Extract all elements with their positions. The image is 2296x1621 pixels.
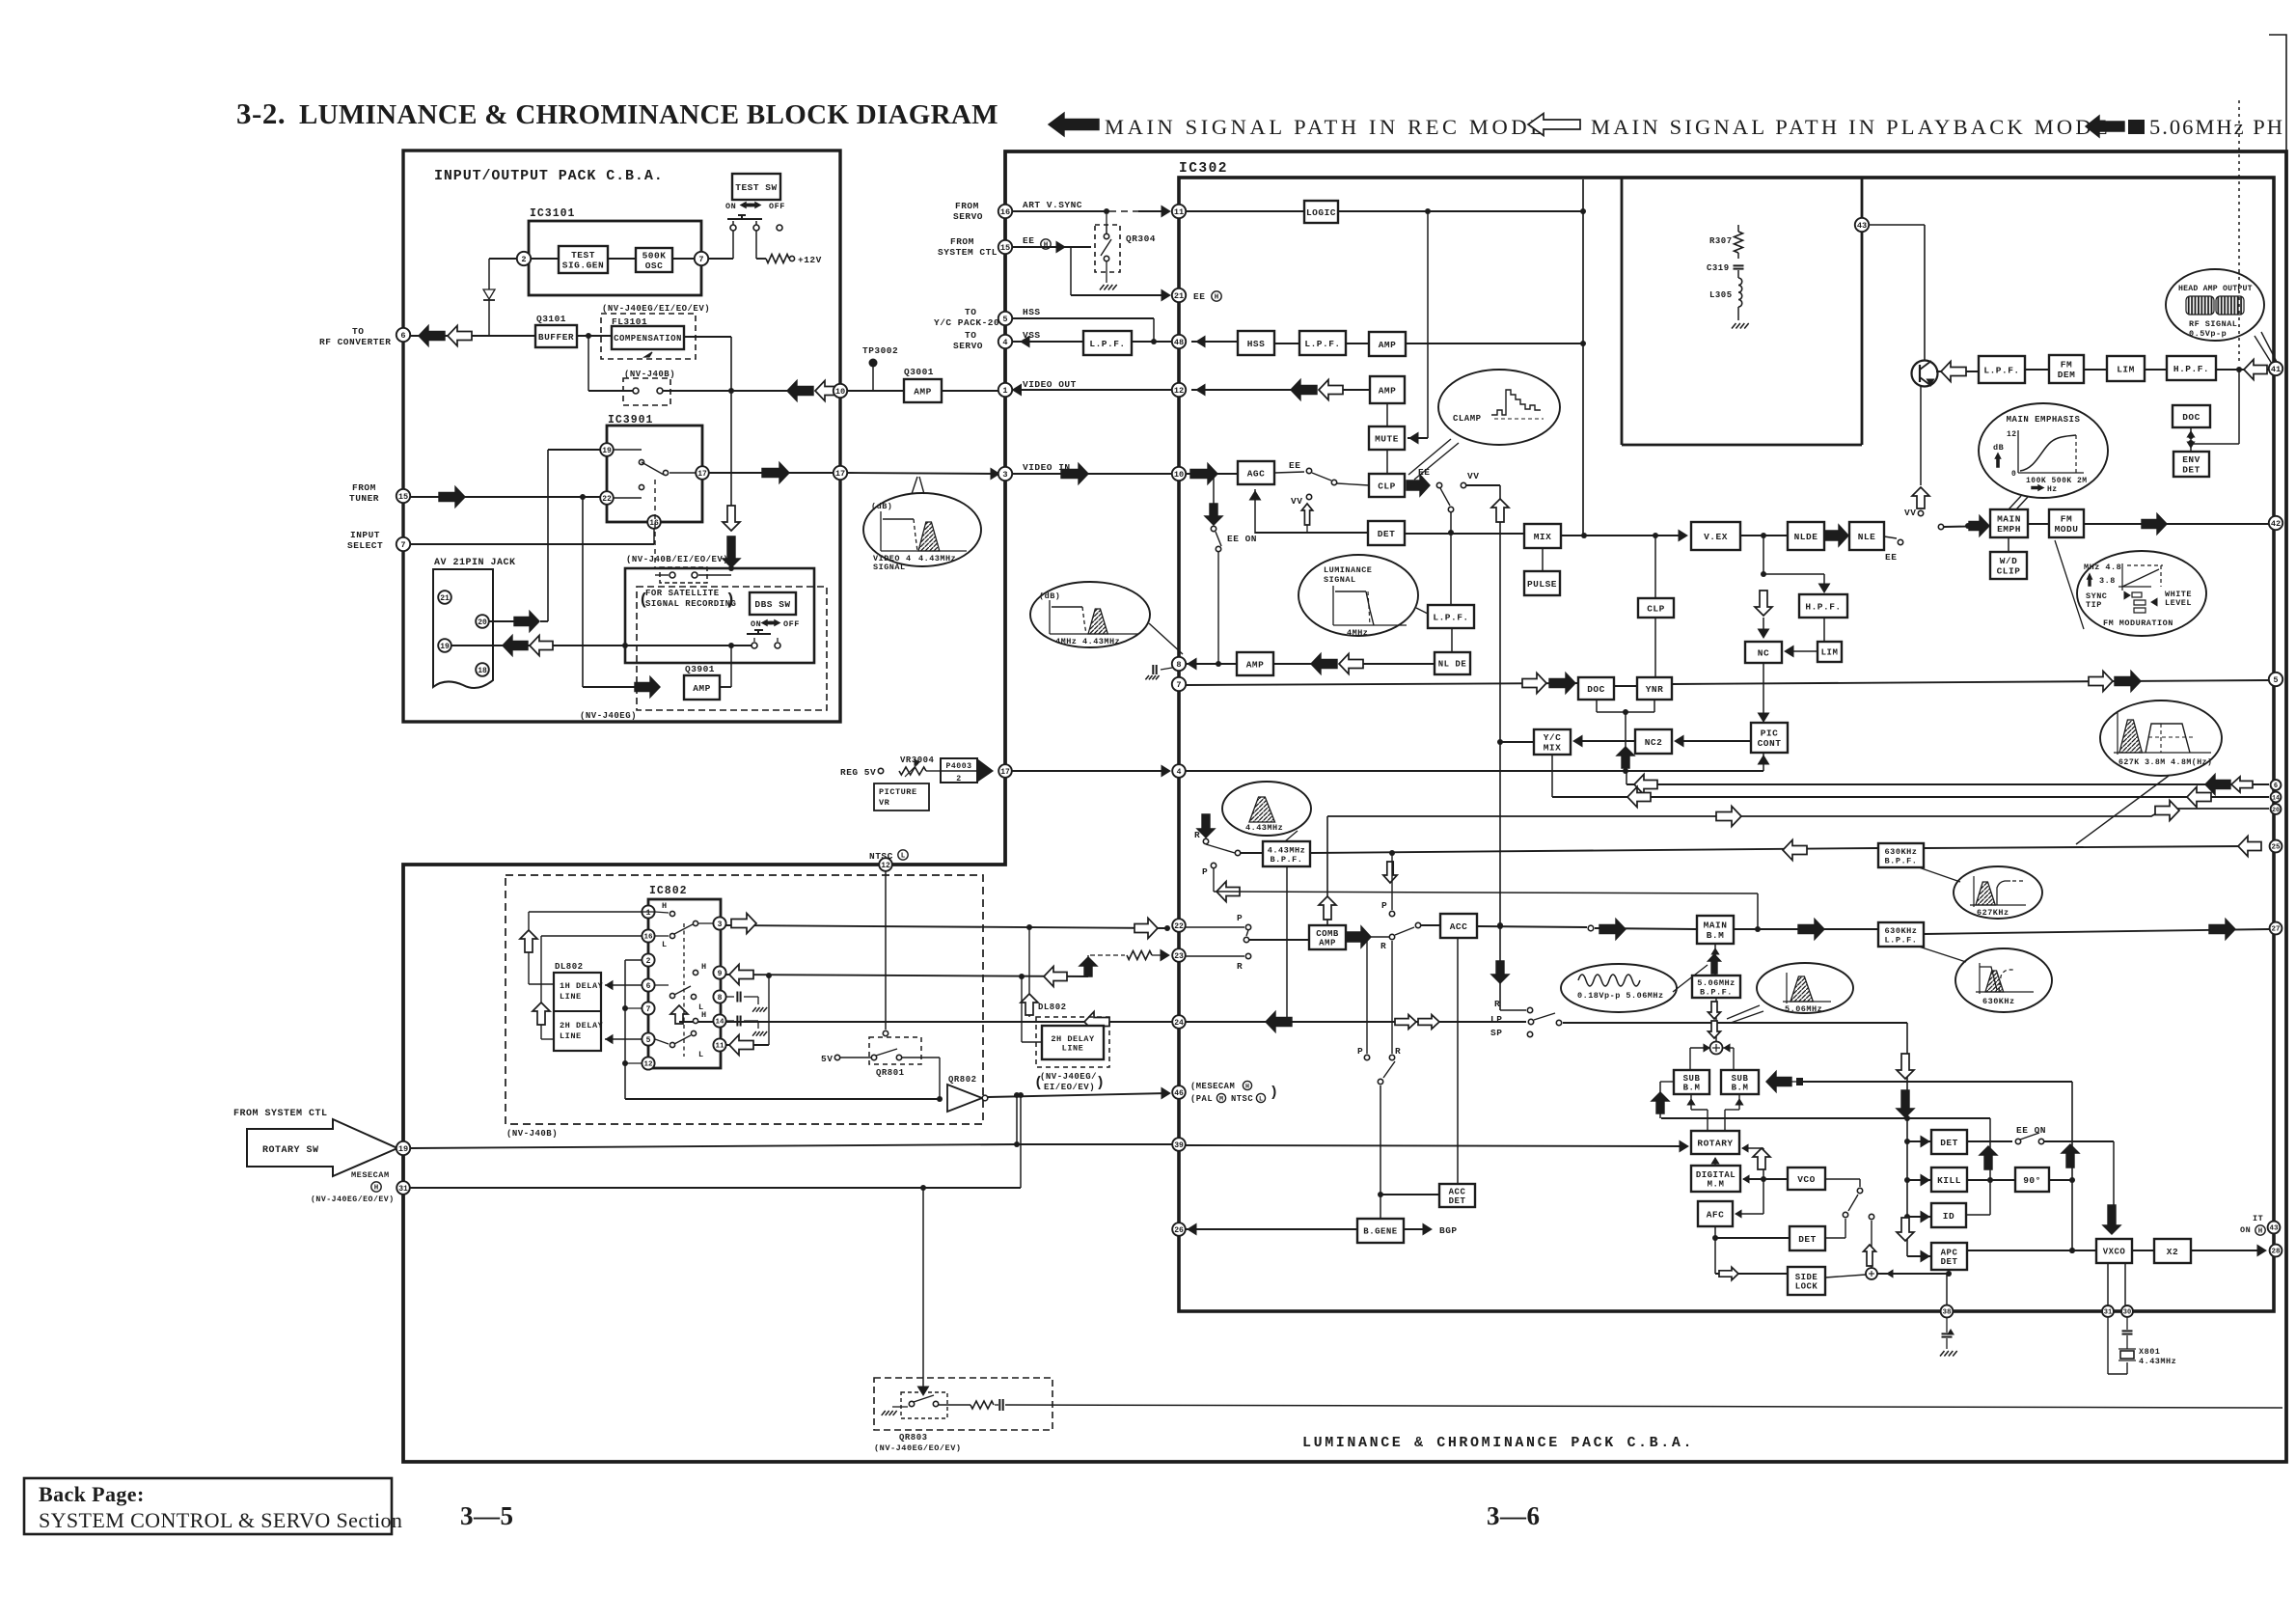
svg-text:23: 23 [1174,952,1184,961]
svg-text:VIDEO OUT: VIDEO OUT [1023,379,1077,390]
svg-text:H: H [2258,1228,2263,1236]
svg-text:AFC: AFC [1707,1209,1725,1220]
svg-text:H: H [701,1010,707,1020]
svg-text:MODU: MODU [2055,524,2079,535]
svg-text:BGP: BGP [1439,1225,1458,1236]
svg-text:(NV-J40B): (NV-J40B) [506,1129,558,1139]
svg-text:CLIP: CLIP [1997,566,2021,577]
svg-text:7: 7 [400,540,405,550]
svg-text:IC302: IC302 [1179,161,1228,177]
svg-text:30: 30 [2123,1309,2131,1317]
svg-text:M: M [1219,1095,1223,1102]
svg-text:5: 5 [2273,675,2278,685]
svg-text:43: 43 [2269,1225,2279,1233]
svg-text:3: 3 [1002,470,1007,480]
svg-text:TO: TO [352,326,364,337]
svg-text:4.43MHz: 4.43MHz [918,554,956,563]
svg-text:L.P.F.: L.P.F. [1885,935,1918,945]
svg-text:3.8: 3.8 [2099,576,2116,586]
svg-text:7: 7 [1176,680,1181,690]
svg-text:14: 14 [715,1019,724,1027]
svg-text:(: ( [1034,1075,1044,1091]
svg-text:dB: dB [1993,443,2004,453]
svg-text:0: 0 [2011,470,2016,479]
svg-text:NLDE: NLDE [1794,532,1818,542]
svg-text:FM MODURATION: FM MODURATION [2103,618,2173,628]
svg-text:L: L [698,1050,704,1059]
svg-text:INPUT: INPUT [350,530,380,540]
svg-text:AMP: AMP [1319,939,1336,948]
svg-text:LUMINANCE: LUMINANCE [1324,565,1372,575]
svg-text:AMP: AMP [1246,659,1265,670]
svg-text:28: 28 [2271,1249,2281,1256]
svg-text:MIX: MIX [1544,743,1562,754]
svg-text:21: 21 [440,594,450,603]
svg-text:P: P [1357,1046,1363,1057]
svg-text:(MESECAM: (MESECAM [1190,1082,1235,1091]
svg-text:FROM: FROM [950,236,974,247]
svg-text:ART V.SYNC: ART V.SYNC [1023,200,1082,210]
svg-text:TO: TO [965,307,976,317]
svg-text:MHz 4.8: MHz 4.8 [2084,563,2121,572]
svg-text:EI/EO/EV): EI/EO/EV) [1044,1083,1095,1092]
svg-text:ON: ON [2240,1225,2251,1235]
svg-text:(: ( [639,591,649,610]
svg-text:15: 15 [1000,243,1010,253]
svg-text:90°: 90° [2023,1175,2041,1186]
svg-text:SYSTEM CONTROL & SERVO Section: SYSTEM CONTROL & SERVO Section [39,1508,402,1532]
svg-text:VXCO: VXCO [2103,1248,2126,1257]
svg-text:P: P [1237,913,1243,923]
svg-text:B.GENE: B.GENE [1363,1227,1398,1237]
svg-text:SELECT: SELECT [347,540,383,551]
svg-text:L: L [662,940,668,949]
svg-text:2: 2 [521,255,526,264]
svg-text:11: 11 [1174,207,1184,217]
svg-text:NC2: NC2 [1645,737,1663,748]
svg-text:ACC: ACC [1450,921,1468,932]
svg-text:FROM SYSTEM CTL: FROM SYSTEM CTL [233,1109,328,1119]
svg-text:EMPH: EMPH [1997,524,2021,535]
svg-text:SERVO: SERVO [953,211,983,222]
svg-text:R307: R307 [1709,236,1733,246]
svg-text:Y/C PACK-20: Y/C PACK-20 [934,317,999,328]
svg-text:38: 38 [1942,1309,1952,1317]
svg-text:LINE: LINE [1062,1043,1084,1053]
svg-text:YNR: YNR [1646,684,1664,695]
svg-text:(NV-J40EG/: (NV-J40EG/ [1040,1072,1097,1082]
svg-text:FROM: FROM [352,482,376,493]
svg-text:(PAL: (PAL [1190,1094,1213,1104]
svg-text:ACC: ACC [1449,1187,1466,1196]
svg-text:H: H [374,1185,379,1193]
svg-text:4: 4 [1177,768,1182,777]
svg-text:DEM: DEM [2058,370,2076,380]
svg-text:LOCK: LOCK [1795,1282,1818,1292]
svg-text:EE: EE [1885,552,1897,563]
svg-text:H: H [1215,294,1219,302]
svg-text:L.P.F.: L.P.F. [1089,339,1125,349]
svg-text:(NV-J40EG): (NV-J40EG) [580,711,637,721]
svg-text:PULSE: PULSE [1527,579,1557,590]
svg-text:6: 6 [646,982,651,991]
svg-text:CLP: CLP [1647,603,1665,614]
svg-text:9: 9 [718,970,723,978]
svg-text:BUFFER: BUFFER [538,332,574,343]
svg-text:12: 12 [2007,430,2017,439]
svg-text:): ) [725,591,736,610]
svg-text:SUB: SUB [1683,1074,1701,1084]
svg-text:DET: DET [1940,1138,1958,1148]
svg-text:CONT: CONT [1758,738,1782,749]
svg-text:Q3901: Q3901 [685,664,715,674]
svg-text:MAIN EMPHASIS: MAIN EMPHASIS [2007,415,2081,425]
svg-text:DOC: DOC [1587,684,1605,695]
svg-text:0.5Vp-p: 0.5Vp-p [2189,329,2227,339]
svg-text:4.43MHz: 4.43MHz [2139,1357,2176,1366]
svg-text:31: 31 [2104,1309,2112,1317]
svg-text:Hz: Hz [2047,485,2058,494]
svg-text:NTSC: NTSC [1231,1094,1253,1104]
svg-text:Y/C: Y/C [1544,732,1562,743]
svg-text:627K 3.8M 4.8M(Hz): 627K 3.8M 4.8M(Hz) [2118,757,2212,767]
svg-text:Back Page:: Back Page: [39,1482,145,1506]
svg-text:P4003: P4003 [945,762,971,771]
svg-text:DET: DET [1798,1234,1817,1245]
svg-text:B.P.F.: B.P.F. [1885,856,1918,865]
svg-text:H: H [701,962,707,972]
svg-text:3—6: 3—6 [1487,1501,1541,1530]
svg-text:25: 25 [2271,844,2281,852]
svg-text:500K: 500K [642,251,667,261]
svg-text:(NV-J40B): (NV-J40B) [624,370,675,379]
svg-text:(dB): (dB) [1039,591,1060,601]
svg-text:39: 39 [1174,1141,1184,1150]
svg-text:B.M: B.M [1707,930,1725,941]
svg-text:22: 22 [1174,922,1184,931]
svg-text:APC: APC [1941,1248,1958,1257]
svg-text:VR: VR [879,798,890,808]
svg-text:LUMINANCE & CHROMINANCE PACK C: LUMINANCE & CHROMINANCE PACK C.B.A. [1302,1435,1694,1451]
svg-text:(NV-J40B/EI/EO/EV): (NV-J40B/EI/EO/EV) [626,555,728,564]
svg-text:627KHz: 627KHz [1977,908,2009,918]
svg-text:RF SIGNAL: RF SIGNAL [2189,319,2237,329]
svg-text:(NV-J40EG/EI/EO/EV): (NV-J40EG/EI/EO/EV) [602,304,710,314]
svg-text:ROTARY: ROTARY [1697,1138,1733,1148]
svg-text:R: R [1380,941,1386,951]
svg-text:TIP: TIP [2086,600,2102,610]
svg-text:FM: FM [2061,514,2072,525]
svg-text:NC: NC [1758,647,1769,658]
svg-text:QR802: QR802 [948,1075,977,1085]
svg-text:2H DELAY: 2H DELAY [560,1021,604,1030]
svg-text:TEST SW: TEST SW [735,182,777,193]
svg-text:B.P.F.: B.P.F. [1271,855,1303,865]
svg-text:VCO: VCO [1797,1174,1816,1185]
svg-text:1H DELAY: 1H DELAY [560,981,604,991]
svg-text:LEVEL: LEVEL [2165,598,2192,608]
svg-text:ON: ON [725,202,736,211]
svg-text:18: 18 [478,667,487,675]
svg-text:M.M: M.M [1708,1180,1725,1190]
svg-text:FROM: FROM [955,201,979,211]
svg-text:): ) [1270,1085,1279,1101]
svg-text:14: 14 [2272,794,2280,801]
svg-text:REG 5V: REG 5V [840,767,876,778]
svg-text:20: 20 [478,618,487,627]
svg-text:EE: EE [1289,460,1300,471]
svg-text:FOR SATELLITE: FOR SATELLITE [645,589,720,598]
svg-text:B.M: B.M [1732,1084,1749,1093]
svg-text:24: 24 [1174,1019,1184,1028]
svg-text:12: 12 [1174,386,1184,396]
svg-text:8: 8 [718,994,723,1003]
svg-text:AMP: AMP [1379,340,1397,350]
svg-text:DL802: DL802 [555,962,584,972]
svg-text:PIC: PIC [1761,728,1779,739]
svg-text:22: 22 [602,495,612,504]
svg-text:H.P.F.: H.P.F. [2173,364,2209,374]
svg-text:VV: VV [1291,496,1302,507]
svg-text:H.P.F.: H.P.F. [1805,601,1841,612]
svg-text:AGC: AGC [1247,468,1266,479]
svg-text:L.P.F.: L.P.F. [1433,612,1468,622]
svg-text:10: 10 [1174,470,1184,480]
svg-text:SIG.GEN: SIG.GEN [562,261,604,271]
svg-text:TEST: TEST [571,250,595,261]
svg-text:L: L [1259,1095,1263,1102]
svg-text:SIGNAL RECORDING: SIGNAL RECORDING [645,599,736,609]
svg-text:OFF: OFF [769,202,785,211]
svg-text:P: P [1381,900,1387,911]
svg-text:15: 15 [398,492,408,502]
svg-text:27: 27 [2271,926,2280,934]
svg-text:LOGIC: LOGIC [1306,207,1336,218]
svg-text:EE ON: EE ON [2016,1125,2046,1136]
svg-text:H: H [662,901,668,911]
svg-text:LUMINANCE & CHROMINANCE BLOCK: LUMINANCE & CHROMINANCE BLOCK DIAGRAM [299,99,998,130]
svg-text:26: 26 [1174,1226,1184,1235]
svg-text:17: 17 [835,469,845,479]
svg-text:PICTURE: PICTURE [879,787,917,797]
svg-text:COMPENSATION: COMPENSATION [614,334,682,343]
svg-text:L305: L305 [1709,290,1733,300]
svg-text:DET: DET [1941,1257,1958,1267]
svg-text:V.EX: V.EX [1704,532,1728,542]
svg-text:MAIN: MAIN [1704,920,1728,931]
svg-text:5: 5 [1002,315,1007,324]
svg-text:COMB: COMB [1316,929,1339,939]
svg-text:TP3002: TP3002 [862,345,898,356]
svg-text:L.P.F.: L.P.F. [1983,365,2019,375]
svg-text:DET: DET [1378,529,1396,539]
svg-text:LIM: LIM [1821,648,1839,658]
svg-text:QR304: QR304 [1126,234,1156,244]
svg-text:3-2.: 3-2. [236,96,286,130]
svg-text:16: 16 [1000,207,1010,217]
svg-text:21: 21 [1174,291,1184,301]
svg-text:5V: 5V [821,1054,833,1064]
svg-text:EE: EE [1023,235,1034,246]
svg-text:1: 1 [646,909,651,918]
svg-text:10: 10 [835,387,845,397]
svg-text:P: P [1202,866,1208,877]
svg-text:5: 5 [646,1036,651,1045]
svg-text:TO: TO [965,330,976,341]
svg-text:6: 6 [400,331,405,341]
svg-text:DL802: DL802 [1038,1003,1067,1012]
svg-text:CLP: CLP [1378,481,1396,491]
svg-text:H: H [1245,1083,1249,1089]
svg-text:MAIN SIGNAL PATH IN PLAYBACK M: MAIN SIGNAL PATH IN PLAYBACK MODE [1591,115,2111,139]
svg-text:MIX: MIX [1534,532,1552,542]
svg-text:100K 500K 2M: 100K 500K 2M [2026,477,2088,485]
svg-text:ON: ON [751,619,761,629]
svg-text:16: 16 [649,519,659,528]
svg-text:43: 43 [1857,221,1867,231]
svg-text:EE: EE [1193,291,1205,302]
svg-text:SIDE: SIDE [1795,1273,1818,1282]
svg-text:VV: VV [1904,508,1916,518]
svg-text:Q3101: Q3101 [536,314,566,324]
svg-text:19: 19 [440,643,450,651]
svg-text:46: 46 [1174,1089,1184,1098]
svg-text:C319: C319 [1707,263,1730,273]
svg-text:SERVO: SERVO [953,341,983,351]
svg-text:B.M: B.M [1683,1084,1701,1093]
svg-text:LINE: LINE [560,992,582,1002]
svg-text:0.18Vp-p 5.06MHz: 0.18Vp-p 5.06MHz [1577,991,1664,1001]
svg-text:4: 4 [1002,338,1007,347]
svg-text:LP: LP [1490,1014,1502,1025]
svg-text:16: 16 [643,934,653,942]
svg-text:5.06MHz PH: 5.06MHz PH [2149,115,2284,139]
svg-text:41: 41 [2271,365,2281,374]
svg-text:4: 4 [906,554,912,563]
svg-text:630KHz: 630KHz [1982,997,2015,1006]
svg-text:OSC: OSC [645,261,664,271]
svg-text:12: 12 [643,1061,653,1069]
svg-text:3: 3 [718,920,723,929]
svg-text:KILL: KILL [1937,1175,1961,1186]
svg-text:): ) [1096,1075,1106,1091]
svg-text:SUB: SUB [1732,1074,1749,1084]
svg-text:3—5: 3—5 [460,1501,514,1530]
svg-text:L: L [901,853,906,861]
svg-text:HSS: HSS [1247,339,1266,349]
svg-text:NLE: NLE [1858,532,1876,542]
svg-text:TUNER: TUNER [349,493,379,504]
svg-text:W/D: W/D [2000,556,2018,566]
svg-text:ENV: ENV [2182,454,2200,465]
svg-text:DET: DET [2182,465,2200,476]
svg-text:QR801: QR801 [876,1068,905,1078]
svg-text:RF CONVERTER: RF CONVERTER [319,337,391,347]
svg-text:4.43MHz: 4.43MHz [1245,823,1283,833]
svg-text:INPUT/OUTPUT PACK C.B.A.: INPUT/OUTPUT PACK C.B.A. [434,168,664,184]
svg-text:(NV-J40EG/EO/EV): (NV-J40EG/EO/EV) [311,1195,395,1204]
svg-text:LINE: LINE [560,1031,582,1041]
svg-text:4MHz: 4MHz [1347,628,1368,638]
svg-text:B.P.F.: B.P.F. [1700,987,1733,997]
svg-text:DBS SW: DBS SW [754,599,790,610]
svg-text:IC802: IC802 [649,885,688,897]
svg-text:H: H [1044,242,1049,250]
svg-text:48: 48 [1174,338,1184,347]
svg-text:NL DE: NL DE [1438,660,1467,670]
svg-text:2: 2 [956,775,961,783]
svg-text:5.06MHz: 5.06MHz [1785,1004,1822,1014]
svg-text:MESECAM: MESECAM [351,1170,390,1180]
svg-text:2: 2 [646,957,651,966]
svg-text:SYSTEM CTL: SYSTEM CTL [938,247,998,258]
svg-text:AMP: AMP [1379,385,1397,396]
svg-text:R: R [1494,999,1500,1009]
svg-text:11: 11 [715,1043,724,1051]
svg-text:IC3101: IC3101 [530,207,575,220]
svg-text:31: 31 [398,1185,408,1194]
svg-text:(NV-J40EG/EO/EV): (NV-J40EG/EO/EV) [874,1443,962,1453]
svg-text:AMP: AMP [693,683,711,694]
svg-text:+12V: +12V [798,255,822,265]
svg-text:AMP: AMP [914,386,932,397]
svg-text:(dB): (dB) [871,502,892,511]
svg-text:19: 19 [398,1144,408,1154]
svg-text:SIGNAL: SIGNAL [873,563,906,572]
svg-text:19: 19 [602,447,612,455]
svg-text:QR803: QR803 [899,1433,928,1442]
svg-text:7: 7 [698,255,703,264]
svg-text:20: 20 [2272,807,2280,813]
svg-text:X2: X2 [2167,1247,2178,1257]
svg-text:EE ON: EE ON [1227,534,1257,544]
svg-text:HSS: HSS [1023,307,1041,317]
svg-text:MAIN: MAIN [1997,514,2021,525]
svg-text:R: R [1395,1046,1401,1057]
svg-text:DIGITAL: DIGITAL [1696,1170,1736,1180]
svg-text:VV: VV [1467,471,1479,481]
svg-text:SP: SP [1490,1028,1502,1038]
svg-text:MAIN SIGNAL PATH IN REC MODE: MAIN SIGNAL PATH IN REC MODE [1105,115,1547,139]
svg-text:12: 12 [881,862,890,870]
svg-text:7: 7 [646,1005,651,1014]
svg-text:ID: ID [1943,1211,1954,1222]
svg-text:4MHz 4.43MHz: 4MHz 4.43MHz [1055,637,1120,646]
svg-text:HEAD AMP OUTPUT: HEAD AMP OUTPUT [2178,285,2253,293]
svg-text:R: R [1237,961,1243,972]
svg-text:42: 42 [2271,519,2281,529]
svg-text:17: 17 [697,470,707,479]
svg-text:OFF: OFF [783,619,800,629]
svg-text:6: 6 [2274,783,2278,790]
svg-text:L.P.F.: L.P.F. [1304,339,1340,349]
svg-text:CLAMP: CLAMP [1453,414,1482,424]
svg-text:8: 8 [1176,660,1181,670]
svg-text:1: 1 [1002,386,1007,396]
svg-text:AV 21PIN JACK: AV 21PIN JACK [434,558,516,568]
svg-text:LIM: LIM [2117,364,2135,374]
svg-text:17: 17 [1000,768,1010,777]
svg-text:DOC: DOC [2182,412,2200,423]
svg-text:MUTE: MUTE [1375,433,1399,444]
svg-text:ROTARY SW: ROTARY SW [262,1145,319,1156]
svg-text:Q3001: Q3001 [904,367,934,377]
svg-text:IT: IT [2253,1214,2263,1223]
svg-text:DET: DET [1449,1196,1466,1206]
svg-text:X801: X801 [2139,1347,2160,1357]
svg-text:SIGNAL: SIGNAL [1324,575,1356,585]
svg-text:FM: FM [2061,360,2072,371]
